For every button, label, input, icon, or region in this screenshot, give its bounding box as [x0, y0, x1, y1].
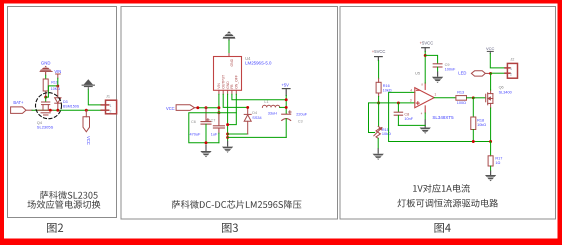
- svg-text:R16: R16: [383, 84, 390, 88]
- net label BAT+: [13, 100, 24, 105]
- wire VIN pin down: [218, 94, 220, 112]
- junction gnd node: [226, 123, 229, 126]
- svg-text:+5VCC: +5VCC: [372, 49, 386, 54]
- svg-text:2: 2: [110, 110, 112, 114]
- svg-text:R13: R13: [457, 91, 464, 95]
- wire ON_OFF jog: [228, 94, 237, 124]
- junction R18 bottom: [472, 140, 475, 143]
- ground symbol (panel2 main): [222, 141, 233, 153]
- svg-text:SL348XT5: SL348XT5: [432, 115, 454, 120]
- junction R17 top: [489, 140, 492, 143]
- net label VCC: [486, 46, 495, 51]
- pin stub IC top: [228, 54, 230, 57]
- svg-text:LED: LED: [458, 71, 466, 76]
- C7 value 1uF: [211, 133, 218, 137]
- wire gnd to R19: [45, 75, 47, 79]
- junction C9 branch: [424, 54, 427, 57]
- transistor Q4 (MOSFET): [38, 102, 53, 115]
- junction C6 top: [205, 106, 208, 109]
- junction gate node: [472, 96, 475, 99]
- junction C8 node: [397, 101, 400, 104]
- wire GND pin down: [227, 94, 229, 141]
- resistor R13: [456, 96, 473, 101]
- wire stacked node right: [219, 112, 236, 114]
- Q6 value SL3400: [499, 91, 512, 95]
- R17 value 1Ω: [495, 161, 500, 165]
- svg-text:LM2596S-5.0: LM2596S-5.0: [245, 61, 272, 66]
- C3 value 220uF: [296, 113, 307, 117]
- R13 label: [457, 91, 464, 95]
- diode D4: [244, 107, 251, 134]
- resistor R19: [43, 79, 48, 97]
- C9 value 100nF: [445, 68, 456, 72]
- svg-text:GND: GND: [41, 61, 51, 66]
- svg-text:U5: U5: [415, 70, 421, 75]
- capacitor C9: [433, 64, 442, 72]
- svg-text:1: 1: [434, 92, 436, 96]
- svg-text:C9: C9: [445, 63, 450, 67]
- svg-text:33uH: 33uH: [268, 111, 277, 115]
- wire main rail: [32, 109, 101, 111]
- wire power to J1 pin1: [88, 90, 101, 105]
- U4 pin name FB: [230, 84, 234, 89]
- capacitor C8: [394, 103, 402, 126]
- net label VCC (rotated): [86, 136, 91, 145]
- svg-text:3: 3: [410, 99, 412, 103]
- node GND label: [41, 61, 51, 66]
- svg-text:Q6: Q6: [499, 85, 504, 89]
- junction stacked: [217, 111, 220, 114]
- svg-text:1Ω: 1Ω: [495, 161, 500, 165]
- wire gate down: [45, 97, 47, 102]
- svg-text:470uF: 470uF: [190, 133, 201, 137]
- C8 value 10nF: [404, 117, 413, 121]
- ground symbol (panel1 top): [40, 66, 53, 76]
- svg-text:SL3400: SL3400: [499, 91, 512, 95]
- wire L1 right to node: [280, 106, 287, 108]
- svg-text:R15: R15: [382, 128, 389, 132]
- wire gnd to IC top: [228, 41, 230, 54]
- wire R15 wiper loop: [369, 103, 379, 133]
- R15 label: [382, 128, 389, 132]
- J1 label: [106, 95, 110, 99]
- svg-text:1: 1: [510, 67, 512, 71]
- svg-text:100nF: 100nF: [445, 68, 456, 72]
- junction rail at Q4: [49, 109, 52, 112]
- U4 label: [245, 56, 251, 61]
- C3 label: [298, 120, 303, 124]
- svg-text:BSM150S: BSM150S: [63, 104, 80, 108]
- junction D4 cathode: [246, 106, 249, 109]
- wire LED node down to Q6 drain: [490, 73, 492, 90]
- svg-text:220uF: 220uF: [296, 113, 307, 117]
- U4 pin name GND2: [226, 81, 230, 89]
- junction tag stem: [196, 106, 199, 109]
- R16 label: [383, 84, 390, 88]
- C6 value 470uF: [190, 133, 201, 137]
- svg-text:R19: R19: [51, 81, 58, 85]
- power arrow symbol (up): [82, 79, 95, 90]
- net label +5V: [281, 82, 289, 87]
- U4 pin name GND (top): [230, 58, 234, 66]
- wire LED node to J2 pin2: [491, 72, 505, 74]
- svg-text:C8: C8: [404, 112, 409, 116]
- wire pin4 feedback: [389, 92, 491, 141]
- power symbol +5V (T-bar): [282, 89, 290, 96]
- junction FB node: [285, 98, 288, 101]
- wire ring left: [189, 113, 219, 143]
- wire gnd to D4 anode: [228, 133, 248, 135]
- ground symbol (under C9): [432, 72, 443, 84]
- junction D4 gnd: [226, 133, 229, 136]
- D4 value SS34: [252, 116, 261, 120]
- wire to op-amp pin3: [379, 102, 415, 104]
- U5 value SL348XT5: [432, 115, 454, 120]
- gnd symbol stem: [228, 39, 229, 41]
- resistor R18: [471, 117, 476, 142]
- net label VIN: [54, 69, 61, 74]
- op-amp U5: [415, 83, 434, 113]
- svg-text:10kΩ: 10kΩ: [477, 123, 486, 127]
- wire +5VCC to R16: [378, 61, 380, 79]
- connector tag VCC: [176, 105, 199, 111]
- wire R15 bottom: [377, 138, 379, 148]
- wire Q6 source down: [490, 108, 492, 142]
- wire V+ supply: [424, 52, 426, 84]
- connector J2: [505, 63, 518, 78]
- ground symbol (under R15): [373, 148, 384, 160]
- svg-text:10KΩ: 10KΩ: [51, 87, 60, 91]
- R13 value 100Ω: [457, 101, 466, 105]
- C7 label: [211, 118, 216, 122]
- Q6 label: [499, 85, 504, 89]
- svg-text:C6: C6: [191, 120, 196, 124]
- power symbol VIN: [56, 74, 61, 78]
- R18 label: [477, 119, 484, 123]
- transistor Q6 (MOSFET): [486, 90, 493, 108]
- junction L1 node: [285, 106, 288, 109]
- Q4 label: [37, 120, 43, 125]
- connector J1: [101, 100, 116, 114]
- U4 pin name ON_OFF: [235, 75, 239, 89]
- wire VCC to J2 pin1: [490, 54, 505, 68]
- wire output to R13: [434, 97, 456, 99]
- J2 label: [510, 58, 514, 62]
- D3 label: [63, 100, 68, 104]
- R15 value 10kΩ: [382, 132, 391, 136]
- wire gate to Q6: [473, 97, 485, 99]
- diode D3: [55, 86, 61, 110]
- junction LED node: [489, 72, 492, 75]
- R19 value 10KΩ: [51, 87, 60, 91]
- svg-text:ON_OFF: ON_OFF: [235, 75, 239, 89]
- connector tag LED: [471, 71, 489, 76]
- svg-text:J1: J1: [106, 95, 110, 99]
- svg-text:VIN: VIN: [54, 69, 61, 74]
- wire V- to gnd: [424, 113, 426, 120]
- wire stem to VCC tag: [85, 110, 87, 117]
- wire R16 bottom: [378, 97, 380, 103]
- op-amp pin number 3: [410, 99, 412, 103]
- wire gate to VIN node: [46, 86, 58, 97]
- U4 pin name OUTPUT: [221, 75, 225, 89]
- svg-text:FB: FB: [230, 84, 234, 89]
- U4 value LM2596S-5.0: [245, 61, 272, 66]
- svg-text:2: 2: [510, 73, 512, 77]
- D3 value BSM150S: [63, 104, 80, 108]
- net label LED: [458, 71, 466, 76]
- capacitor C7: [213, 113, 224, 143]
- inductor L1: [262, 105, 279, 107]
- J1 pin numbers: [110, 104, 112, 113]
- net label +5VCC (left): [372, 49, 386, 54]
- svg-text:+5V: +5V: [281, 82, 289, 87]
- junction VIN node: [56, 84, 59, 87]
- connector tag VCC (down): [83, 117, 90, 132]
- C9 label: [445, 63, 450, 67]
- junction rail at D3: [56, 109, 59, 112]
- capacitor C6: [201, 108, 211, 143]
- junction rail VCC branch: [85, 109, 88, 112]
- pin stubs IC bottom: [219, 90, 236, 94]
- wire gate to R18: [472, 98, 474, 117]
- C8 label: [404, 112, 409, 116]
- svg-text:10kΩ: 10kΩ: [382, 132, 391, 136]
- net label VCC: [166, 106, 175, 111]
- wire gnd to C3 bottom: [228, 136, 287, 138]
- svg-text:J2: J2: [510, 58, 514, 62]
- wire VCC rail: [199, 107, 219, 109]
- junction C6 bottom: [205, 141, 208, 144]
- D4 label: [252, 111, 257, 115]
- svg-text:SL2305S: SL2305S: [37, 125, 54, 130]
- svg-text:VCC: VCC: [486, 46, 495, 51]
- svg-text:SS34: SS34: [252, 116, 261, 120]
- L1 value 33uH: [268, 111, 277, 115]
- R17 label: [495, 157, 502, 161]
- svg-text:VCC: VCC: [86, 136, 91, 145]
- captions (CJK as vector paths): [27, 184, 498, 233]
- junction C3 gnd: [226, 136, 229, 139]
- svg-text:1: 1: [110, 104, 112, 108]
- svg-text:OUTPUT: OUTPUT: [221, 75, 225, 89]
- capacitor C3: [282, 111, 291, 138]
- connector tag BAT+: [11, 107, 32, 114]
- ground symbol (under R17): [485, 171, 496, 182]
- U5 label: [415, 70, 421, 75]
- svg-text:10nF: 10nF: [404, 117, 413, 121]
- net label +5VCC (mid): [420, 40, 434, 45]
- junction gate node: [44, 96, 47, 99]
- Q4 value SL2305S: [37, 125, 54, 130]
- L1 label: [264, 100, 268, 104]
- resistor R17: [488, 142, 493, 171]
- power symbol +5VCC left (T-bar): [375, 57, 383, 61]
- svg-text:D4: D4: [252, 111, 257, 115]
- U5 pin label V+: [421, 82, 423, 86]
- resistor R16: [376, 79, 381, 97]
- wire to C9: [425, 55, 437, 63]
- wire C8 bottom to gnd: [398, 124, 425, 126]
- ground symbol (under U5): [420, 120, 431, 134]
- svg-text:10kΩ: 10kΩ: [383, 88, 392, 92]
- wire VIN down: [57, 78, 59, 86]
- R16 value 10kΩ: [383, 88, 392, 92]
- svg-text:+5VCC: +5VCC: [420, 40, 434, 45]
- power symbol VCC small: [487, 51, 493, 53]
- svg-text:1uF: 1uF: [211, 133, 218, 137]
- svg-text:VCC: VCC: [166, 106, 175, 111]
- svg-text:GND: GND: [230, 58, 234, 66]
- ground symbol (panel2 top, pointing up): [223, 31, 236, 38]
- op-amp pin number 4: [410, 89, 412, 93]
- junction R16/R15 node: [377, 101, 380, 104]
- power symbol +5VCC mid (T-bar): [422, 48, 430, 52]
- C6 label: [191, 120, 196, 124]
- svg-text:L1: L1: [264, 100, 268, 104]
- J2 pin numbers: [510, 67, 512, 76]
- U5 pin label V-: [421, 111, 423, 115]
- wire FB pin to +5V node: [232, 94, 286, 99]
- svg-text:BAT+: BAT+: [13, 100, 24, 105]
- op-amp output pin 1: [434, 92, 436, 96]
- U4 pin name VIN: [217, 83, 221, 89]
- Q4 package dashed circle: [36, 93, 62, 119]
- ground symbol (left, under C6): [200, 144, 211, 157]
- potentiometer R15: [374, 103, 382, 138]
- wire OUTPUT pin to L1: [223, 94, 248, 107]
- IC U4 body: [214, 57, 242, 91]
- svg-text:R18: R18: [477, 119, 484, 123]
- svg-text:100Ω: 100Ω: [457, 101, 466, 105]
- svg-text:C7: C7: [211, 118, 216, 122]
- R19 label: [51, 81, 58, 85]
- wire +5V down: [285, 96, 287, 114]
- R18 value 10kΩ: [477, 123, 486, 127]
- junction rail end: [217, 106, 220, 109]
- svg-text:C3: C3: [298, 120, 303, 124]
